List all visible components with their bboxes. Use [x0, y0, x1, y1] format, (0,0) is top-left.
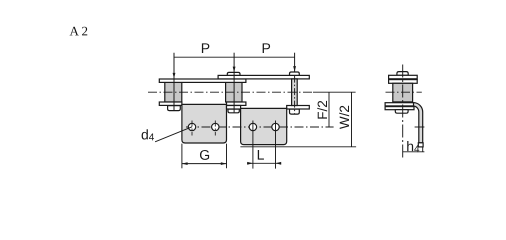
- link B bottom plate bar left segment: [227, 106, 241, 110]
- end view plate bar A: [389, 75, 418, 79]
- end view bent leg of attachment plate: [414, 103, 423, 143]
- link A bottom plate bar right segment: [227, 102, 246, 105]
- W/2 dimension line: [351, 92, 353, 147]
- hole H4: [272, 123, 279, 130]
- end view hole centerline stub: [415, 126, 425, 128]
- h4 dimension line: [403, 151, 425, 153]
- F/2 dimension line: [328, 92, 330, 127]
- d4 leader line: [155, 127, 192, 142]
- svg-text:F/2: F/2: [315, 100, 330, 120]
- hole H3: [249, 123, 256, 130]
- attachment plate 2 body: [241, 108, 287, 144]
- svg-text:W/2: W/2: [337, 105, 352, 129]
- chain centerline: [148, 91, 313, 93]
- link A bottom plate bar left segment: [159, 102, 182, 105]
- svg-text:P: P: [201, 40, 210, 56]
- G dimension line: [182, 163, 227, 165]
- end view plate bar B: [389, 80, 418, 84]
- hole H1 vertical centerline: [191, 121, 193, 136]
- svg-text:h4: h4: [406, 138, 420, 155]
- hole H2: [212, 123, 219, 130]
- pin 2 top head: [227, 72, 240, 75]
- roller R2: [226, 82, 242, 102]
- pin 3 centerline: [294, 76, 296, 114]
- link B bottom plate bar right segment: [287, 106, 310, 110]
- G arrows: [182, 162, 188, 165]
- G extension line left: [181, 144, 183, 169]
- P dimension line: [174, 56, 295, 58]
- attachment plate 1 body: [182, 104, 227, 143]
- pin 2 bottom head: [228, 109, 239, 113]
- end view leg foot square: [418, 143, 423, 147]
- end view vertical centerline: [402, 65, 404, 159]
- W/2 bottom extension line: [240, 146, 356, 148]
- pin 3 bottom head: [290, 109, 300, 114]
- svg-text:P: P: [262, 40, 271, 56]
- L dimension line: [247, 162, 281, 164]
- end view bottom bar C: [385, 103, 414, 106]
- svg-text:d4: d4: [141, 126, 155, 143]
- P extension line pin3: [294, 53, 296, 72]
- L extension line right: [275, 121, 277, 169]
- G extension line right: [226, 144, 228, 169]
- hole H1: [188, 123, 195, 130]
- pin 3 column: [292, 79, 298, 106]
- leg edge extension to dimension line: [422, 147, 424, 152]
- end view horizontal centerline: [386, 91, 422, 93]
- end view pin top head: [397, 72, 408, 76]
- arrow pin1: [173, 73, 176, 79]
- hole H2 vertical centerline: [214, 121, 216, 136]
- roller R1: [165, 82, 182, 102]
- P extension line pin1: [173, 53, 175, 110]
- svg-text:L: L: [257, 147, 265, 163]
- arrow pin3: [293, 66, 296, 72]
- svg-text:A 2: A 2: [70, 23, 88, 38]
- link B top plate bar: [218, 75, 309, 79]
- link A top plate bar: [159, 79, 246, 82]
- end view bottom bar D: [385, 107, 414, 110]
- end view roller: [393, 83, 413, 102]
- svg-text:G: G: [199, 147, 210, 163]
- pin 1 bottom head: [168, 106, 181, 111]
- L extension line left: [252, 121, 254, 169]
- P extension line pin2: [233, 53, 235, 113]
- pin 3 top head: [290, 72, 300, 75]
- end view pin bottom head: [395, 110, 408, 114]
- L arrows: [247, 162, 253, 165]
- centerline extension right: [313, 91, 356, 93]
- hole centerline through attachment holes: [186, 126, 334, 128]
- arrow pin2: [233, 67, 236, 73]
